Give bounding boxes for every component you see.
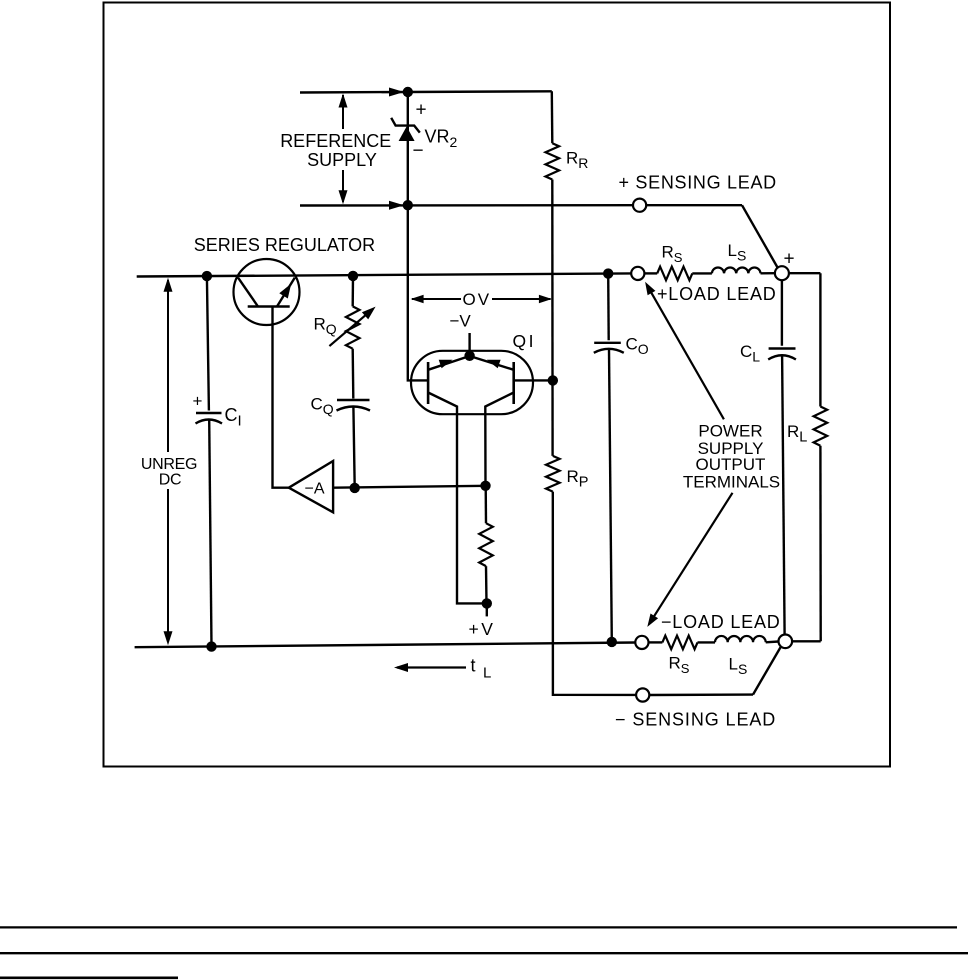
svg-text:−A: −A <box>305 480 325 497</box>
svg-text:QI: QI <box>513 331 536 351</box>
svg-text:L: L <box>483 665 491 682</box>
svg-text:DC: DC <box>159 471 182 488</box>
svg-text:POWER: POWER <box>698 422 762 441</box>
svg-text:TERMINALS: TERMINALS <box>683 473 780 492</box>
svg-text:OV: OV <box>463 290 492 309</box>
svg-text:− SENSING LEAD: − SENSING LEAD <box>615 709 776 729</box>
svg-text:+: + <box>784 249 795 270</box>
svg-text:+: + <box>416 100 427 121</box>
svg-text:UNREG: UNREG <box>141 456 197 473</box>
svg-text:REFERENCE: REFERENCE <box>280 131 391 151</box>
svg-text:+ SENSING LEAD: + SENSING LEAD <box>619 172 777 192</box>
svg-text:−V: −V <box>450 311 472 330</box>
svg-text:+: + <box>193 392 203 411</box>
svg-text:OUTPUT: OUTPUT <box>696 455 766 474</box>
svg-text:SUPPLY: SUPPLY <box>307 150 377 170</box>
svg-text:−: − <box>413 141 424 162</box>
svg-text:SERIES REGULATOR: SERIES REGULATOR <box>194 235 375 255</box>
svg-text:+LOAD LEAD: +LOAD LEAD <box>657 284 777 304</box>
svg-text:+V: +V <box>469 619 496 639</box>
svg-text:t: t <box>471 656 476 676</box>
svg-text:−LOAD LEAD: −LOAD LEAD <box>661 612 781 632</box>
